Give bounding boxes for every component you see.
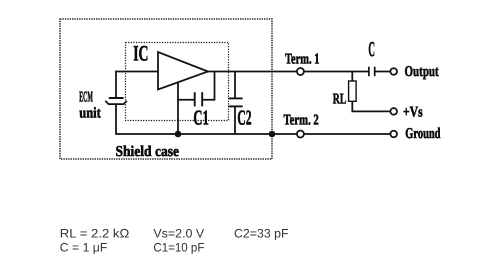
shield case dashed box <box>60 19 272 159</box>
wire: C1 right lead up to output <box>202 72 214 100</box>
capacitor C1 plates <box>194 92 196 106</box>
svg-text:RL: RL <box>333 91 347 107</box>
wire: C2 top lead <box>234 72 236 99</box>
svg-text:C: C <box>368 37 375 61</box>
capacitor C plates <box>368 67 370 77</box>
svg-text:+Vs: +Vs <box>403 105 423 121</box>
terminal circle Ground <box>390 131 397 138</box>
wire: mic bottom lead <box>115 104 117 134</box>
svg-text:C2=33 pF: C2=33 pF <box>234 227 289 241</box>
svg-text:Shield case: Shield case <box>116 144 180 160</box>
wire: mic to amplifier input <box>115 71 158 73</box>
resistor RL body <box>349 81 357 101</box>
svg-text:IC: IC <box>133 40 148 65</box>
svg-text:Vs=2.0 V: Vs=2.0 V <box>153 227 205 241</box>
wire: RL bottom lead to +Vs <box>352 101 390 111</box>
svg-text:Output: Output <box>405 64 439 80</box>
wire: C1 left lead <box>177 99 194 101</box>
svg-text:C = 1 μF: C = 1 μF <box>60 241 108 255</box>
junction dot at shield edge <box>269 131 276 138</box>
wire: triangle bottom to ground rail <box>177 82 179 134</box>
terminal circle Term.2 <box>297 131 304 138</box>
wire: RL top lead <box>351 72 353 82</box>
svg-text:Term. 2: Term. 2 <box>284 113 319 129</box>
terminal circle Term.1 <box>297 68 304 75</box>
capacitor C2 plates <box>228 97 242 99</box>
wire: C to output terminal <box>375 71 391 73</box>
ECM capsule top plate <box>109 97 124 99</box>
wire: amplifier output <box>208 71 369 73</box>
svg-text:C1=10 pF: C1=10 pF <box>153 241 204 255</box>
wire: C2 bottom lead <box>234 106 236 134</box>
IC dotted box <box>126 43 229 121</box>
svg-text:RL = 2.2 kΩ: RL = 2.2 kΩ <box>60 227 130 241</box>
op-amp IC triangle <box>158 52 208 90</box>
svg-text:Term. 1: Term. 1 <box>285 52 320 68</box>
wire: mic top lead <box>115 71 117 98</box>
ECM capsule diaphragm (dish) <box>105 101 127 104</box>
terminal circle +Vs <box>390 108 397 115</box>
svg-text:ECM: ECM <box>79 90 93 106</box>
svg-text:C1: C1 <box>193 106 209 130</box>
svg-text:C2: C2 <box>237 106 251 130</box>
terminal circle Output <box>390 68 397 75</box>
svg-text:Ground: Ground <box>405 126 441 142</box>
junction dot at triangle branch <box>175 131 182 138</box>
svg-text:unit: unit <box>79 106 101 122</box>
wire: bottom ground rail <box>115 133 390 135</box>
